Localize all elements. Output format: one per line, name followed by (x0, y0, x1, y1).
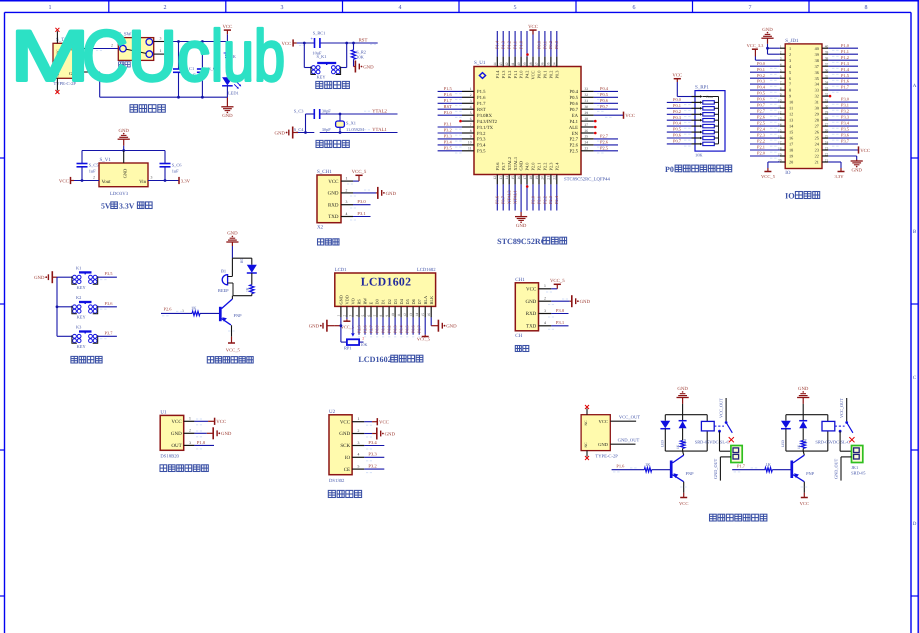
wire S_U1 pin 43 (499, 31, 506, 67)
wire S_U1 pin 25 net P2.7 (581, 134, 618, 142)
caption 声光报警电路 (207, 357, 253, 363)
svg-text:TYPE-C-2P: TYPE-C-2P (595, 454, 618, 459)
svg-text:D4: D4 (399, 298, 404, 304)
svg-text:P3.1: P3.1 (556, 320, 565, 325)
svg-text:4: 4 (358, 453, 360, 457)
switch S_SW1 (118, 31, 153, 60)
svg-text:B1: B1 (221, 268, 226, 273)
crystal S_X1 11.0592M (336, 114, 365, 133)
wire net P2.7 (750, 109, 780, 117)
svg-text:33: 33 (825, 86, 829, 90)
wire S_U1 pin 28 no-connect (581, 117, 597, 122)
svg-text:11: 11 (468, 147, 472, 151)
svg-text:VCC: VCC (171, 419, 182, 425)
svg-text:VCC_OUT: VCC_OUT (619, 414, 640, 419)
svg-text:P2.5: P2.5 (757, 121, 766, 126)
ground GND (354, 61, 375, 73)
svg-text:S_X1: S_X1 (346, 121, 356, 126)
wire S_U1 pin 42 (505, 31, 512, 67)
wire S_U1 pin 23 net P2.5 (581, 145, 618, 153)
svg-text:P0.4: P0.4 (757, 85, 766, 90)
svg-text:VCC_5: VCC_5 (352, 169, 367, 175)
svg-text:P2.2: P2.2 (757, 139, 765, 144)
wire net P0.7 (667, 139, 692, 147)
wire net P3.0 (350, 199, 371, 208)
svg-text:KEY: KEY (77, 315, 87, 320)
svg-text:GND: GND (274, 130, 285, 136)
svg-text:SCK: SCK (340, 443, 350, 449)
svg-text:P0.2: P0.2 (549, 71, 554, 79)
svg-text:VDD: VDD (345, 295, 350, 304)
svg-text:S_JD1: S_JD1 (785, 38, 799, 44)
wire LCD1 pin 12 net P0.5 (403, 306, 410, 336)
svg-text:l: l (211, 17, 223, 97)
logo MCUclub (10, 17, 285, 97)
svg-text:SRD-05VDC-SL-C: SRD-05VDC-SL-C (695, 439, 730, 444)
wire S_U1 pin 5 net P3.0 (438, 110, 474, 118)
svg-text:2: 2 (346, 188, 348, 192)
svg-text:21: 21 (825, 158, 829, 162)
svg-text:K2: K2 (76, 295, 81, 300)
svg-text:P1.1: P1.1 (841, 49, 849, 54)
svg-text:c: c (177, 17, 210, 97)
svg-text:P3.2: P3.2 (477, 131, 486, 137)
wire S_U1 pin 21 (547, 175, 554, 211)
svg-text:13: 13 (789, 118, 793, 123)
svg-text:16: 16 (427, 313, 431, 317)
svg-text:4: 4 (355, 315, 359, 317)
svg-text:VCC_OUT: VCC_OUT (839, 398, 844, 418)
svg-text:P3.4: P3.4 (368, 440, 377, 445)
svg-text:2: 2 (780, 51, 782, 55)
power VCC (relay 2) (800, 482, 809, 507)
svg-text:P1.5: P1.5 (841, 73, 850, 78)
svg-text:YTAL1: YTAL1 (372, 127, 387, 133)
svg-text:21: 21 (547, 176, 551, 180)
svg-text:P1.6: P1.6 (841, 79, 850, 84)
svg-text:2: 2 (789, 52, 791, 57)
svg-text:7: 7 (373, 315, 377, 317)
LED D1 (240, 258, 257, 285)
svg-text:11: 11 (789, 106, 793, 111)
wire net P3.1 (350, 211, 371, 220)
wire S_U1 pin 4 net RST (438, 104, 474, 112)
svg-text:12: 12 (493, 176, 497, 180)
svg-text:GND: GND (227, 231, 238, 237)
svg-text:P3.5: P3.5 (841, 127, 850, 132)
display LCD1 LCD1602 (335, 267, 436, 306)
svg-text:P2.4: P2.4 (757, 127, 766, 132)
svg-text:P1.4: P1.4 (495, 70, 500, 79)
svg-text:6: 6 (470, 117, 472, 121)
power VCC_5 pin 20 (761, 162, 780, 179)
svg-text:43: 43 (499, 62, 503, 66)
svg-text:P3.3: P3.3 (477, 137, 486, 143)
svg-text:EA: EA (572, 113, 579, 119)
svg-text:P3.3: P3.3 (841, 115, 850, 120)
svg-text:22: 22 (815, 154, 819, 159)
caption 时钟模块 (328, 490, 361, 497)
power VCC pin1 (194, 418, 226, 426)
svg-text:IO: IO (785, 192, 795, 201)
svg-text:P3.2: P3.2 (444, 128, 452, 133)
svg-text:D2: D2 (387, 299, 392, 304)
svg-text:P0.2: P0.2 (387, 325, 392, 333)
svg-text:10: 10 (789, 100, 793, 105)
caption 串口 (515, 346, 529, 352)
power 3.3V pin 21 (828, 162, 844, 179)
svg-text:K3: K3 (76, 325, 82, 330)
svg-text:2: 2 (362, 337, 364, 341)
svg-text:P0.3: P0.3 (393, 325, 398, 333)
svg-text:15: 15 (421, 313, 425, 317)
no-connect mark (relay 2) (849, 437, 854, 442)
svg-text:8: 8 (865, 5, 868, 11)
relay coil SRD-05VDC-SL-C (relay 1) (695, 421, 730, 444)
wire net P2.4 (750, 127, 780, 135)
transistor Q PNP (relay 2) (792, 451, 815, 482)
svg-text:S_C3: S_C3 (294, 109, 305, 114)
ground GND (274, 127, 298, 139)
wire net P3.7 (828, 139, 858, 147)
power VCC_5 pin1 (546, 278, 565, 292)
wire left branch (306, 114, 315, 133)
wire net P2.1 (750, 145, 780, 153)
svg-text:P0.0: P0.0 (375, 325, 380, 333)
svg-text:LED: LED (781, 440, 785, 447)
svg-text:14: 14 (505, 176, 509, 180)
svg-text:P0.5: P0.5 (757, 91, 766, 96)
junction (352, 42, 355, 45)
wire net P3.1 (828, 103, 858, 111)
wire S_U1 pin 3 net P1.7 (438, 98, 474, 106)
svg-text:14: 14 (415, 313, 419, 317)
svg-text:18: 18 (529, 176, 533, 180)
diode D (flyback, relay 2) (799, 415, 807, 446)
svg-text:3: 3 (189, 441, 191, 445)
junction (340, 324, 343, 327)
capacitor S_C3 30pF (294, 109, 332, 119)
svg-text:GND: GND (118, 128, 129, 134)
svg-text:M: M (10, 17, 90, 97)
wire S_U1 pin 11 net P3.5 (438, 145, 474, 153)
svg-text:10K: 10K (361, 342, 368, 347)
caption 晶振电路 (316, 140, 349, 147)
wire LCD1 pin 8 net P0.1 (379, 306, 386, 336)
svg-text:VCC: VCC (526, 287, 537, 293)
svg-text:E: E (369, 302, 374, 305)
svg-text:P0.0: P0.0 (537, 70, 542, 79)
svg-text:P3.7: P3.7 (501, 195, 506, 204)
svg-text:10K: 10K (695, 152, 703, 157)
resistor 1K (relay 1) (676, 440, 685, 451)
svg-text:P2.1: P2.1 (537, 163, 542, 171)
no-connect S_SW1 pin1 (154, 49, 168, 55)
part type STC89C52RC_LQFP44 (564, 176, 611, 182)
caption 开关 (119, 62, 131, 67)
svg-text:2: 2 (544, 297, 546, 301)
resistor 1K (base) (161, 306, 219, 316)
power VCC (222, 24, 232, 42)
svg-text:20: 20 (789, 160, 793, 165)
svg-text:26: 26 (585, 129, 589, 133)
ground GND right (431, 320, 457, 332)
svg-text:STC89C52RC: STC89C52RC (497, 237, 547, 246)
wire LCD1 pin 16 (427, 306, 431, 325)
svg-text:P2.6: P2.6 (363, 325, 368, 333)
svg-text:35: 35 (547, 62, 551, 66)
svg-text:P3.6: P3.6 (841, 133, 850, 138)
svg-text:P1.7: P1.7 (841, 85, 850, 90)
svg-text:P0.2: P0.2 (757, 73, 765, 78)
svg-text:U2: U2 (329, 409, 336, 415)
svg-text:LCD1: LCD1 (335, 267, 347, 273)
svg-text:P0.5: P0.5 (405, 325, 410, 333)
svg-text:P2.6: P2.6 (164, 306, 173, 311)
svg-text:P1.5: P1.5 (477, 89, 486, 95)
wire net P0.0 (667, 97, 692, 105)
ground pin2 (364, 428, 395, 440)
no-connect marks on T2 (585, 405, 589, 460)
wire LCD1 pin 3 (349, 306, 355, 336)
wire S_U1 pin 22 (553, 175, 560, 211)
wire net P3.7 (98, 330, 117, 338)
power VCC_5 at emitter (226, 325, 241, 352)
svg-text:VCC: VCC (379, 420, 389, 426)
svg-text:SRD-05VDC-SL-C: SRD-05VDC-SL-C (815, 439, 850, 444)
svg-text:VCC: VCC (860, 148, 870, 154)
svg-text:Vout: Vout (102, 179, 112, 185)
svg-text:P1.0: P1.0 (197, 440, 206, 445)
svg-text:9: 9 (385, 315, 389, 317)
svg-text:4: 4 (544, 321, 546, 325)
svg-text:GND: GND (363, 64, 374, 70)
svg-text:P3.7: P3.7 (501, 162, 506, 171)
wire net P2.0 (750, 151, 780, 159)
svg-text:22: 22 (825, 152, 829, 156)
wire GND_OUT (relay 1) (713, 457, 731, 481)
junction (304, 131, 307, 134)
wire net P0.5 (667, 127, 692, 135)
junction (345, 42, 348, 45)
svg-text:P0.7: P0.7 (570, 107, 579, 113)
svg-text:D: D (913, 521, 917, 527)
svg-text:GND: GND (339, 431, 350, 437)
svg-text:23: 23 (825, 146, 829, 150)
ground pin2 (194, 427, 232, 439)
wire LCD1 pin 1 (337, 306, 341, 325)
svg-text:12: 12 (789, 112, 793, 117)
svg-text:35: 35 (815, 76, 819, 81)
svg-text:SRD-05: SRD-05 (851, 470, 866, 475)
svg-text:P0.6: P0.6 (673, 133, 682, 138)
svg-text:GND: GND (851, 167, 862, 173)
svg-text:P1.2: P1.2 (507, 71, 512, 79)
svg-text:5V: 5V (101, 202, 111, 211)
svg-text:24: 24 (585, 141, 589, 145)
capacitor S_C4 30pF (294, 127, 332, 132)
wire LCD1 pin 10 net P0.3 (391, 306, 398, 336)
svg-text:9: 9 (780, 92, 782, 96)
svg-text:1K: 1K (676, 444, 680, 449)
net label RST (359, 37, 376, 44)
wire net P1.1 (828, 49, 858, 57)
svg-text:30: 30 (585, 105, 589, 109)
svg-text:P1.1: P1.1 (513, 41, 518, 49)
svg-text:VCC_3.3: VCC_3.3 (747, 43, 765, 48)
svg-text:2: 2 (470, 93, 472, 97)
svg-text:3: 3 (349, 315, 353, 317)
svg-text:GND: GND (123, 169, 128, 179)
svg-text:5: 5 (789, 70, 791, 75)
svg-text:P0.0: P0.0 (757, 61, 766, 66)
connector S_CH1 X2 (317, 169, 353, 230)
svg-text:P0.2: P0.2 (673, 109, 681, 114)
svg-text:P1.0: P1.0 (519, 40, 524, 49)
svg-text:3: 3 (358, 441, 360, 445)
svg-text:P0.0: P0.0 (536, 40, 541, 49)
wire S_U1 pin 37 (535, 31, 542, 67)
svg-text:P3.3: P3.3 (444, 134, 453, 139)
svg-text:13: 13 (409, 313, 413, 317)
svg-text:P2.6: P2.6 (570, 143, 579, 149)
wire S_U1 pin 41 (511, 31, 518, 67)
wire net P1.5 (828, 73, 858, 81)
wire S_U1 pin 24 net P2.6 (581, 140, 618, 148)
svg-text:P3.5: P3.5 (477, 149, 486, 155)
svg-text:28: 28 (825, 116, 829, 120)
svg-text:29: 29 (825, 110, 829, 114)
svg-text:P0.3: P0.3 (554, 70, 559, 79)
key S_K1 (304, 43, 346, 79)
svg-text:P3.1: P3.1 (444, 122, 452, 127)
junction (339, 131, 342, 134)
wire net P1.6 (828, 79, 858, 87)
no-connect marker (526, 53, 529, 56)
caption 温度检测模块 (160, 465, 208, 472)
svg-text:D1: D1 (381, 299, 386, 304)
svg-text:6: 6 (789, 76, 791, 81)
svg-text:12: 12 (403, 313, 407, 317)
wire net P0.2 (750, 73, 780, 81)
terminal block JK2 SRD-05 (851, 446, 866, 476)
svg-text:2: 2 (93, 176, 95, 180)
svg-text:VCC: VCC (216, 419, 226, 425)
svg-text:P2.1: P2.1 (757, 145, 765, 150)
svg-text:XTAL2: XTAL2 (507, 157, 512, 171)
svg-text:R5: R5 (240, 258, 244, 263)
svg-text:P0.5: P0.5 (673, 127, 682, 132)
svg-text:TXD: TXD (526, 324, 537, 330)
svg-text:U1: U1 (160, 409, 167, 415)
svg-text:VCC: VCC (679, 501, 688, 506)
svg-text:GND: GND (762, 27, 773, 33)
svg-text:D0: D0 (375, 299, 380, 304)
svg-text:GND: GND (798, 386, 809, 392)
svg-text:XTAL1: XTAL1 (513, 190, 518, 204)
svg-text:GND_OUT: GND_OUT (713, 458, 718, 479)
wire YTAL1 net (298, 132, 398, 134)
ground on pin 2 (350, 187, 397, 199)
svg-text:P1.5: P1.5 (444, 86, 453, 91)
wire S_U1 pin 18 (529, 175, 536, 211)
svg-text:VCC: VCC (59, 178, 69, 184)
ground GND (118, 128, 130, 151)
svg-text:5: 5 (780, 69, 782, 73)
key K3 (57, 325, 98, 350)
svg-text:1uF: 1uF (172, 168, 179, 173)
svg-text:1: 1 (337, 315, 341, 317)
svg-text:P1.4: P1.4 (495, 40, 500, 49)
svg-text:P3.0RX: P3.0RX (477, 113, 493, 119)
wire net P0.4 (750, 85, 780, 93)
svg-text:9: 9 (470, 135, 472, 139)
wire S_U1 pin 30 net P0.7 (581, 104, 618, 112)
svg-text:VCC: VCC (800, 501, 809, 506)
svg-text:42: 42 (505, 62, 509, 66)
svg-text:6: 6 (633, 5, 636, 11)
svg-text:EN: EN (572, 131, 579, 137)
svg-text:3: 3 (346, 200, 348, 204)
connector T2 TYPE-C-2P (output) (581, 409, 618, 459)
svg-text:P3.3: P3.3 (368, 452, 377, 457)
svg-text:30: 30 (815, 106, 819, 111)
svg-text:KEY: KEY (77, 285, 87, 290)
wire net P0.7 (750, 103, 780, 111)
svg-text:P3.0: P3.0 (556, 308, 565, 313)
wire net P3.5 (828, 127, 858, 135)
svg-text:RXD: RXD (328, 202, 339, 208)
svg-text:P2.2: P2.2 (542, 196, 547, 204)
svg-text:b: b (254, 17, 285, 97)
svg-text:VCC: VCC (528, 24, 538, 30)
svg-text:30pF: 30pF (322, 127, 332, 132)
svg-text:GND: GND (309, 324, 320, 330)
svg-text:39: 39 (815, 52, 819, 57)
wire Vin to 3.3V (148, 176, 179, 181)
svg-text:VCC_OUT: VCC_OUT (718, 398, 723, 418)
svg-text:P4.0: P4.0 (525, 162, 530, 171)
svg-text:RS: RS (357, 299, 362, 305)
resistor S_R1 1K (225, 42, 236, 78)
svg-text:13: 13 (499, 176, 503, 180)
svg-text:P1.0: P1.0 (841, 43, 850, 48)
svg-text:8: 8 (379, 315, 383, 317)
wire S_U1 pin 16 ground (515, 175, 527, 229)
wire net P1.0 (828, 43, 858, 51)
svg-text:2: 2 (189, 429, 191, 433)
svg-text:P1.4: P1.4 (841, 67, 850, 72)
wire S_U1 pin 33 net P0.4 (581, 86, 618, 94)
svg-text:16: 16 (517, 176, 521, 180)
wire LCD1 pin 13 net P0.6 (409, 306, 416, 336)
svg-text:P0.6: P0.6 (600, 98, 609, 103)
wire net P3.0 (548, 308, 569, 317)
wire net P1.7 (828, 85, 858, 93)
resistor R (LED limit) (233, 285, 254, 296)
wire YTAL2 net (320, 113, 398, 115)
wire net P2.6 (750, 115, 780, 123)
svg-text:8: 8 (780, 86, 782, 90)
wire LCD1 pin 14 net P0.7 (415, 306, 422, 336)
net label P1.6 (613, 464, 637, 472)
power VCC (59, 176, 99, 185)
wire LCD1 pin 15 (417, 306, 430, 341)
svg-text:VCC_5: VCC_5 (417, 336, 430, 341)
clock chip U2 DS1302 (329, 409, 364, 484)
svg-text:P0.5: P0.5 (600, 92, 609, 97)
wire LCD1 pin 7 net P0.0 (373, 306, 380, 336)
